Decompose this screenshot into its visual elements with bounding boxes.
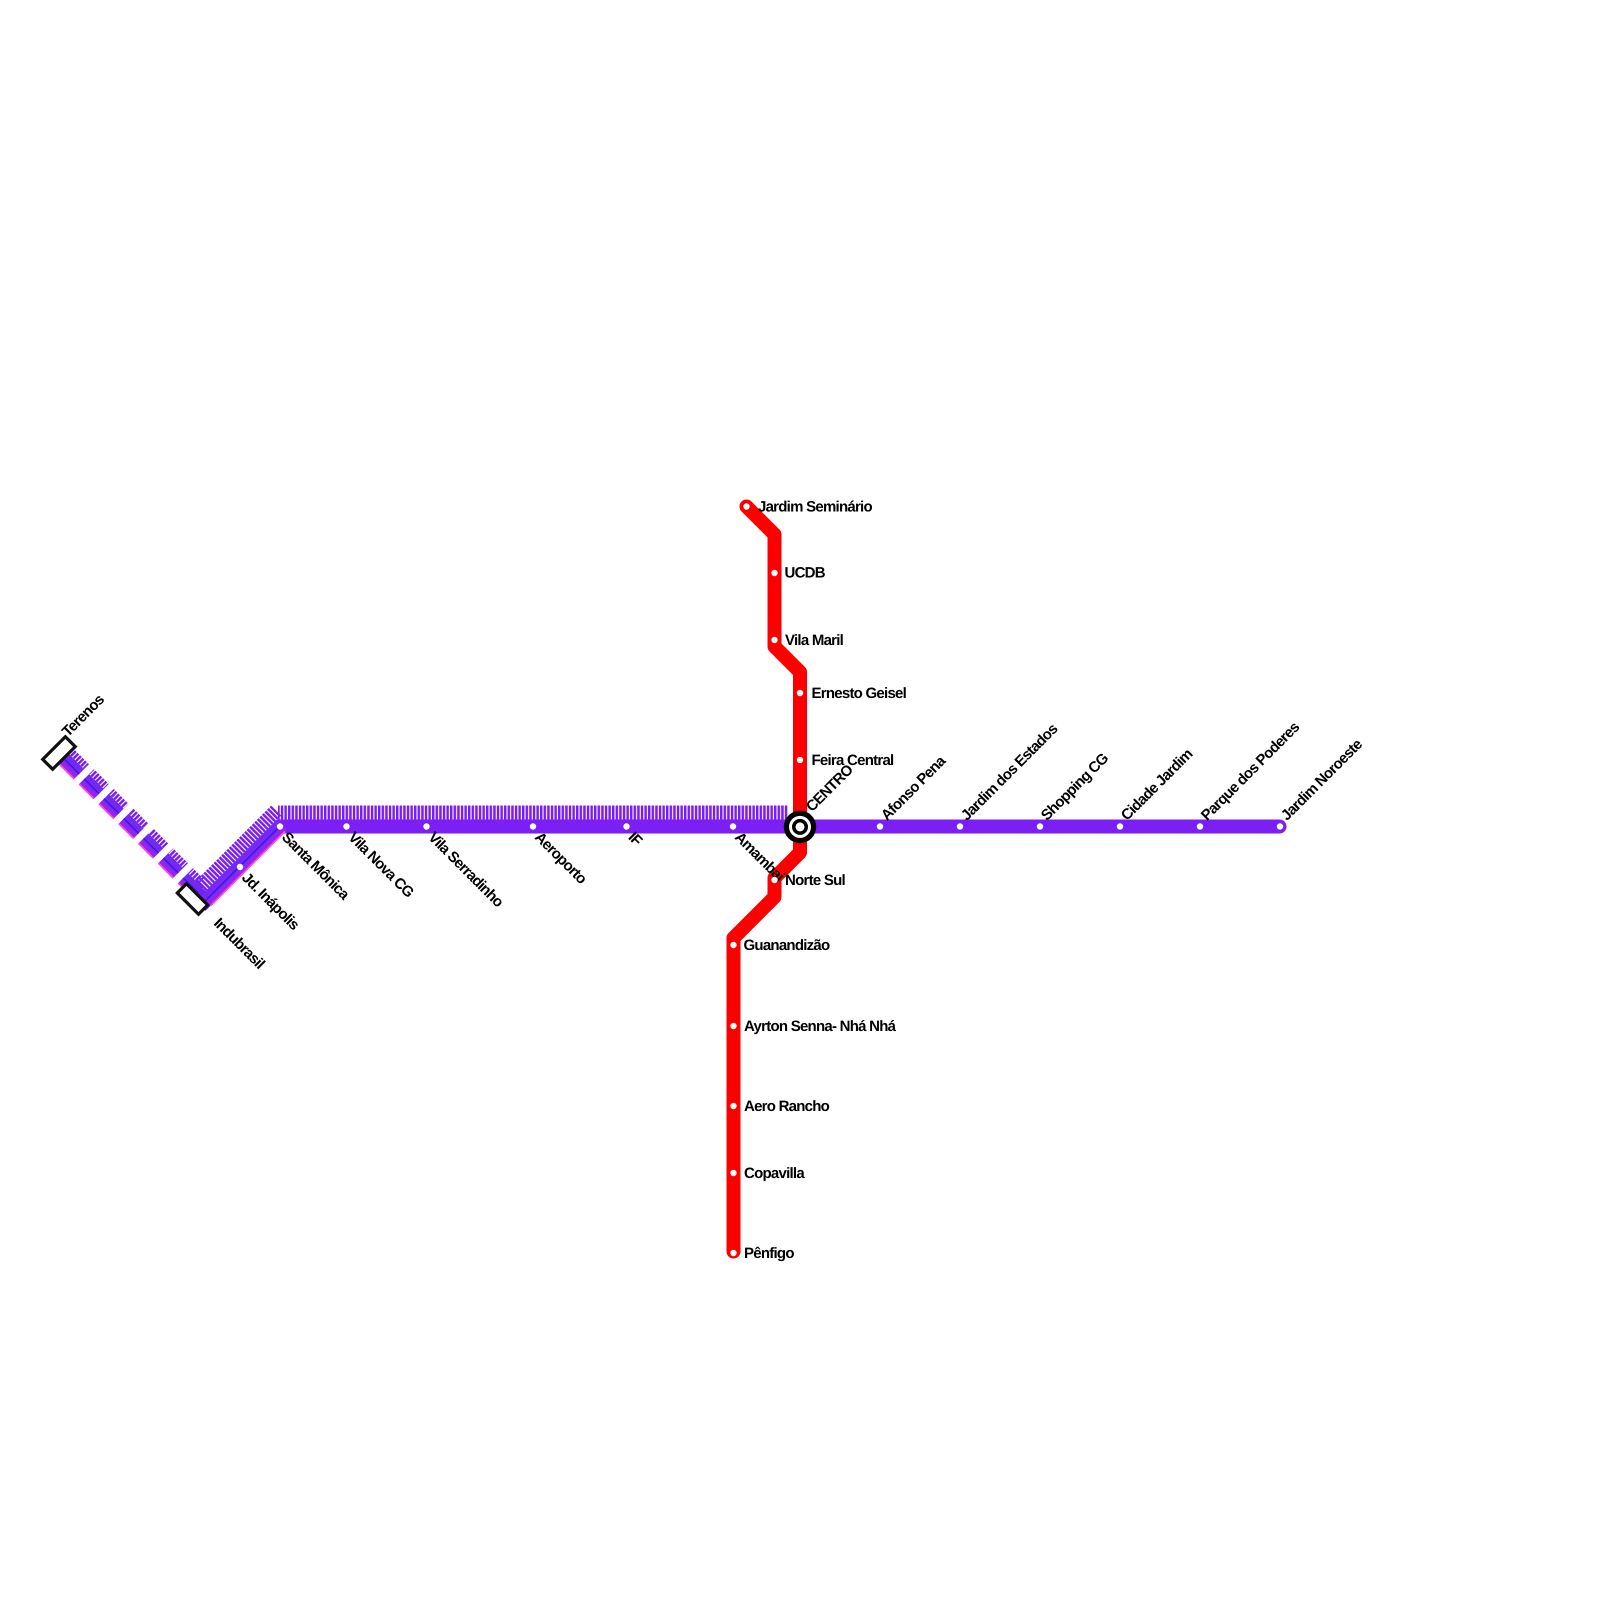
dash: [99, 794, 124, 819]
station dot Vila Serradinho: [423, 823, 429, 829]
svg-text:Jardim Seminário: Jardim Seminário: [758, 499, 872, 516]
svg-text:Aeroporto: Aeroporto: [531, 829, 590, 888]
purple line: main path from Indubrasil bend through Santa Monica bend to Jardim Noroeste: [199, 827, 1280, 902]
svg-text:Shopping CG: Shopping CG: [1038, 750, 1112, 824]
svg-text:Guanandizão: Guanandizão: [744, 937, 831, 954]
svg-text:Cidade Jardim: Cidade Jardim: [1118, 746, 1197, 825]
dash: [59, 754, 84, 779]
station dot Jd. Inapolis: [237, 864, 243, 870]
svg-text:Vila Nova CG: Vila Nova CG: [345, 829, 417, 901]
svg-text:Amambai: Amambai: [731, 829, 787, 885]
station dot Afonso Pena: [877, 823, 883, 829]
svg-text:Pênfigo: Pênfigo: [744, 1245, 794, 1262]
svg-text:Vila Maril: Vila Maril: [785, 632, 844, 649]
svg-text:Indubrasil: Indubrasil: [210, 915, 268, 973]
station dot Feira Central: [797, 757, 803, 763]
svg-text:UCDB: UCDB: [785, 565, 826, 582]
station dot Parque dos Poderes: [1197, 823, 1203, 829]
dash: [158, 853, 183, 878]
station dot UCDB: [771, 570, 777, 576]
station dot Vila Maril: [771, 637, 777, 643]
svg-text:Jardim Noroeste: Jardim Noroeste: [1278, 736, 1366, 824]
purple diagonal segment Indubrasil to Santa Monica (solid, with hatch band): [191, 806, 292, 907]
dash: [178, 873, 203, 898]
purple dashed segment Terenos to Indubrasil (planned, dashed with hatch): [59, 749, 208, 898]
station dot Vila Nova CG: [343, 823, 349, 829]
svg-text:Norte Sul: Norte Sul: [785, 872, 846, 889]
svg-text:Jd. Inápolis: Jd. Inápolis: [238, 869, 302, 933]
station dot Norte Sul: [771, 877, 777, 883]
station dot Amambai: [730, 823, 736, 829]
station dot Ayrton Senna: [730, 1023, 736, 1029]
station dot Jardim Noroeste: [1277, 823, 1283, 829]
CENTRO interchange symbol: [784, 811, 816, 843]
svg-text:Feira Central: Feira Central: [812, 752, 895, 769]
station dot Shopping CG: [1037, 823, 1043, 829]
station dot Copavilla: [730, 1170, 736, 1176]
under-construction hatch band above horizontal segment Santa Monica to CENTRO: [278, 806, 788, 820]
dash: [119, 814, 144, 839]
Indubrasil terminal rectangle: [177, 884, 207, 914]
svg-text:Ernesto Geisel: Ernesto Geisel: [812, 685, 907, 702]
svg-text:Santa Mônica: Santa Mônica: [278, 829, 353, 904]
svg-text:CENTRO: CENTRO: [803, 761, 857, 815]
station dot Jardim Seminario: [743, 503, 749, 509]
station dot Aeroporto: [530, 823, 536, 829]
station dot Santa Monica: [277, 823, 283, 829]
station dot Cidade Jardim: [1117, 823, 1123, 829]
svg-text:Copavilla: Copavilla: [744, 1165, 805, 1182]
dash: [79, 774, 104, 799]
svg-text:Vila Serradinho: Vila Serradinho: [425, 829, 507, 911]
station dot IF: [623, 823, 629, 829]
svg-text:Ayrton Senna- Nhá Nhá: Ayrton Senna- Nhá Nhá: [744, 1018, 897, 1035]
Terenos terminal rectangle: [43, 737, 76, 770]
station dot Penfigo: [730, 1250, 736, 1256]
dash: [138, 833, 163, 858]
station dot Ernesto Geisel: [797, 690, 803, 696]
station dot Jardim dos Estados: [957, 823, 963, 829]
station dot Aero Rancho: [730, 1103, 736, 1109]
station dot Guanandizao: [730, 942, 736, 948]
svg-text:Aero Rancho: Aero Rancho: [744, 1098, 830, 1115]
svg-text:Terenos: Terenos: [59, 691, 108, 740]
red line path Jardim Seminario to Penfigo: [734, 507, 801, 1252]
